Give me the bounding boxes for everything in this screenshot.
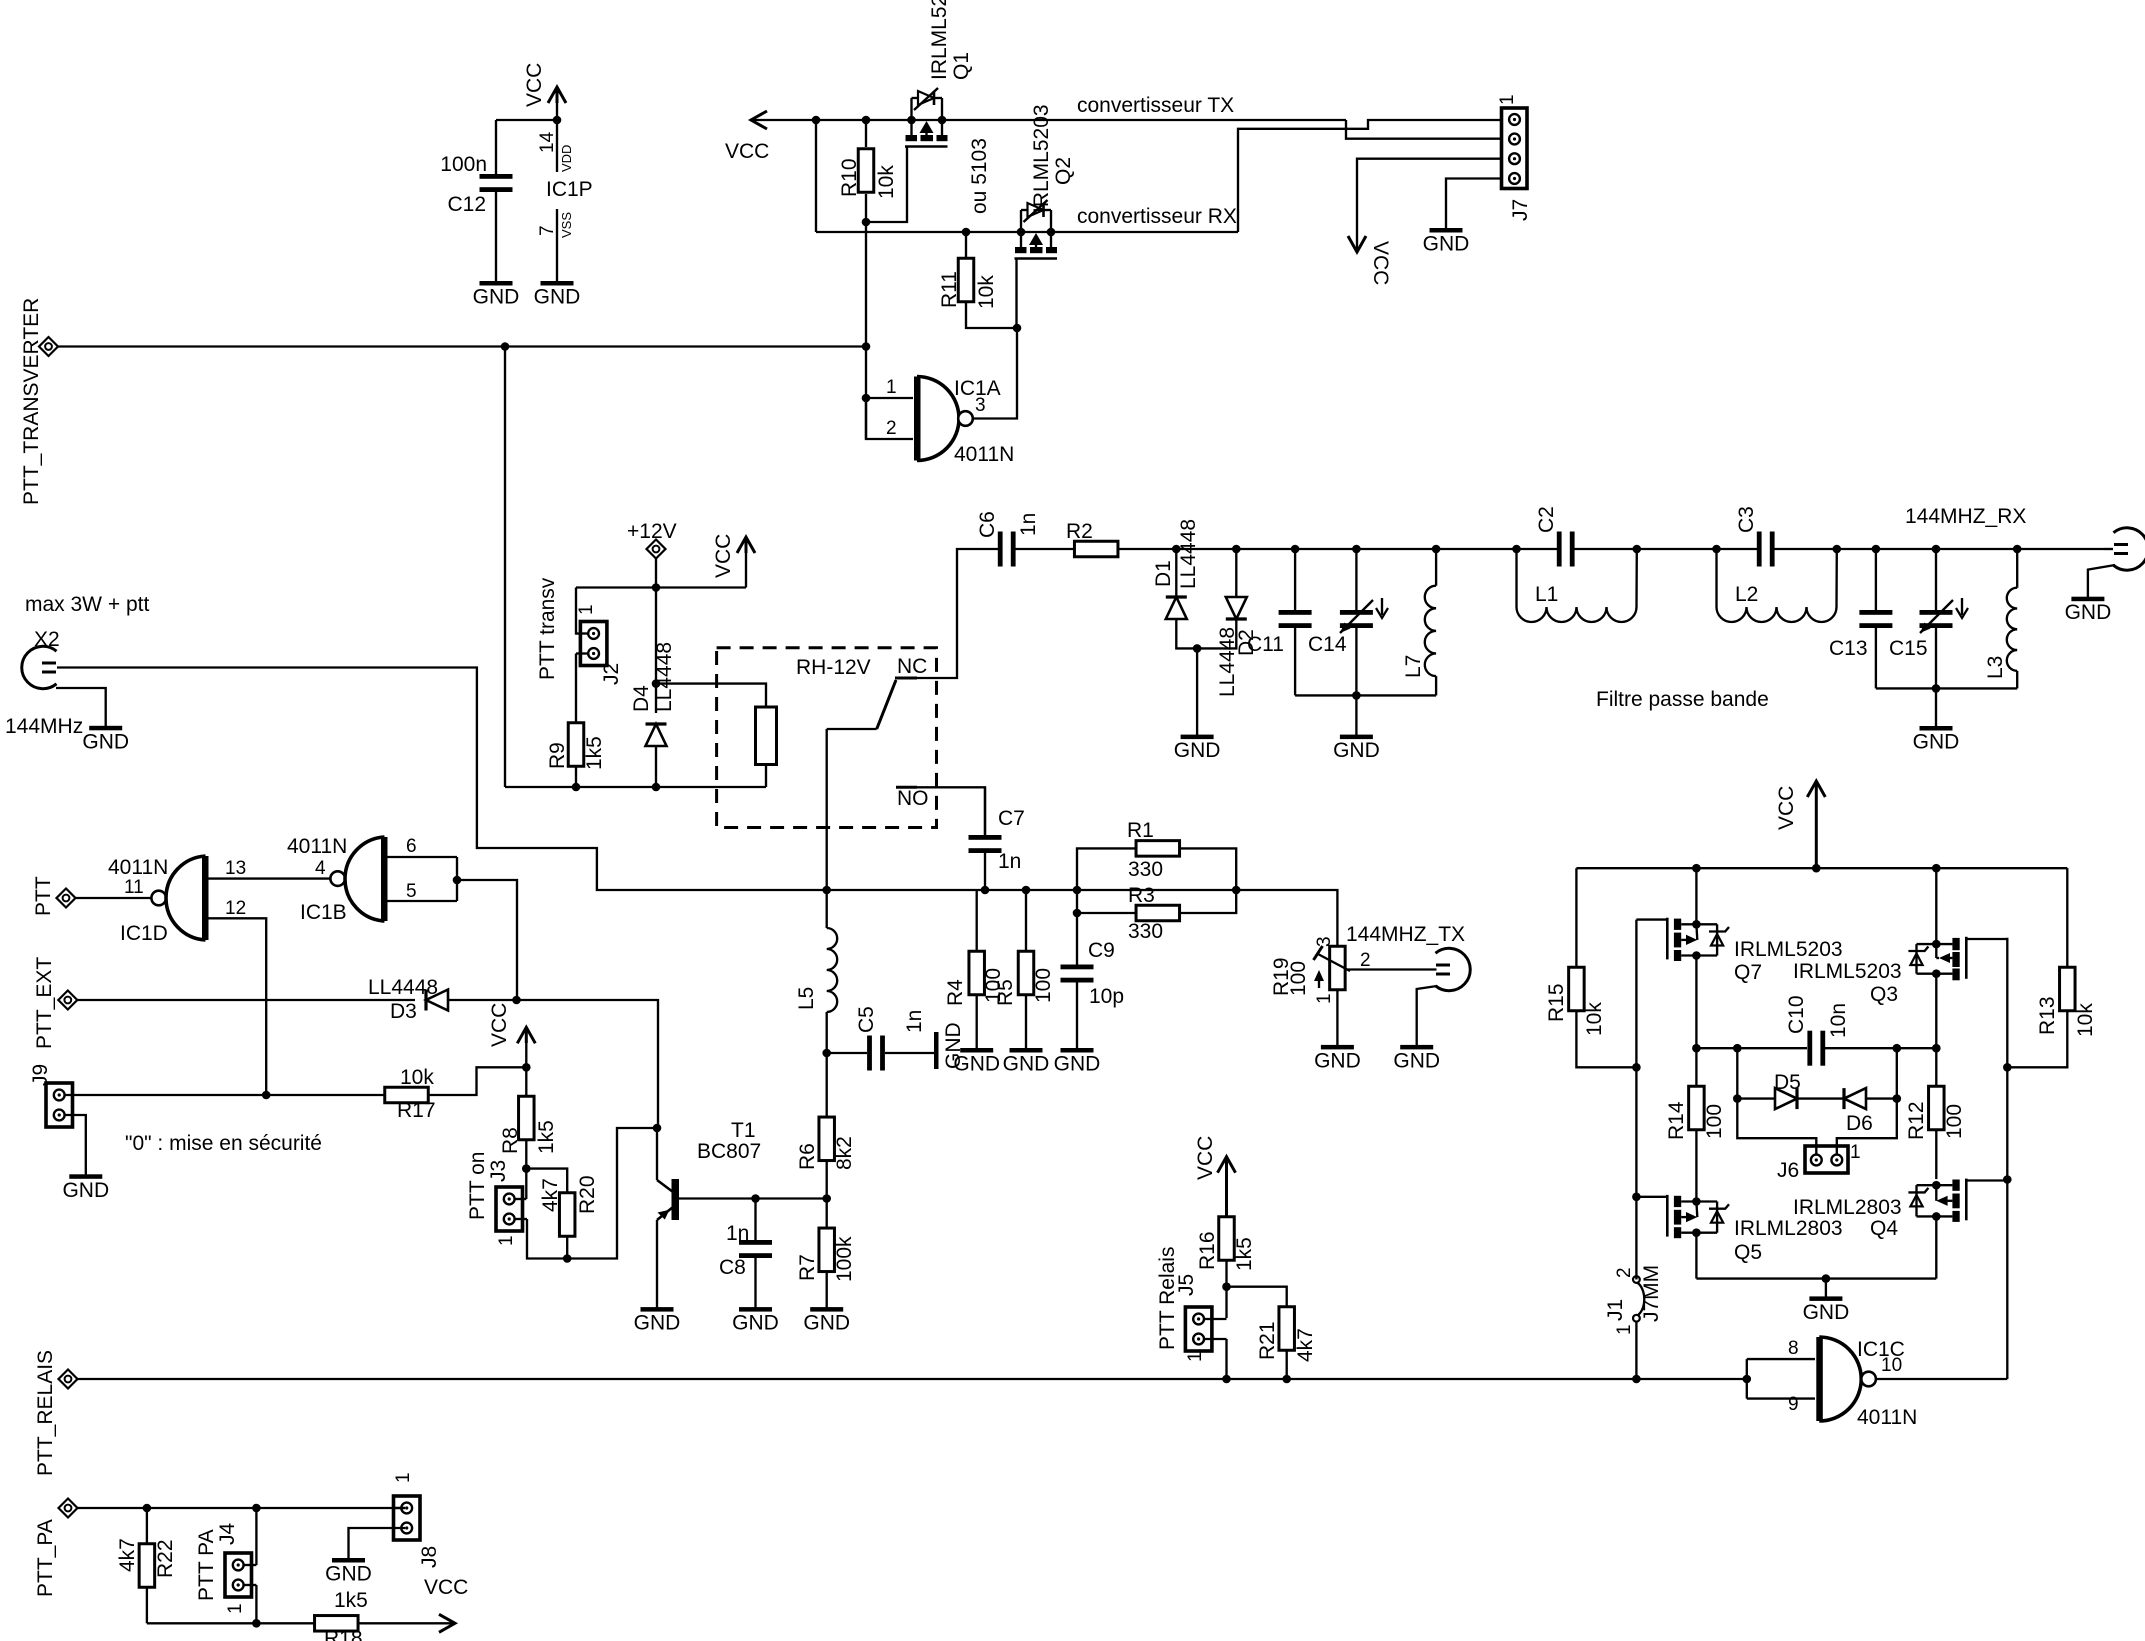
svg-text:PTT on: PTT on [466, 1152, 489, 1220]
svg-text:13: 13 [225, 858, 246, 879]
svg-text:C12: C12 [447, 193, 486, 216]
svg-text:C6: C6 [976, 511, 999, 538]
svg-text:VCC: VCC [424, 1576, 468, 1599]
svg-text:J2: J2 [600, 663, 623, 685]
svg-text:IRLML2803: IRLML2803 [1734, 1217, 1843, 1240]
svg-text:R10: R10 [838, 158, 861, 197]
svg-text:4k7: 4k7 [539, 1178, 562, 1212]
svg-text:4011N: 4011N [108, 856, 168, 879]
svg-text:330: 330 [1128, 858, 1163, 881]
svg-text:Q3: Q3 [1870, 983, 1898, 1006]
svg-text:IRLML5203: IRLML5203 [928, 0, 951, 80]
svg-text:L2: L2 [1735, 583, 1758, 606]
svg-text:J8: J8 [418, 1546, 441, 1568]
svg-text:C13: C13 [1829, 637, 1868, 660]
svg-text:10n: 10n [1827, 1003, 1850, 1038]
svg-text:J1: J1 [1604, 1299, 1627, 1321]
svg-text:10k: 10k [975, 275, 998, 309]
svg-text:9: 9 [1788, 1394, 1799, 1415]
svg-text:C2: C2 [1535, 506, 1558, 533]
svg-text:C15: C15 [1889, 637, 1928, 660]
svg-text:max 3W + ptt: max 3W + ptt [25, 593, 149, 616]
svg-text:R16: R16 [1196, 1231, 1219, 1270]
svg-text:330: 330 [1128, 920, 1163, 943]
svg-text:1k5: 1k5 [334, 1589, 368, 1612]
svg-text:Filtre passe bande: Filtre passe bande [1596, 688, 1769, 711]
svg-text:Q1: Q1 [950, 52, 973, 80]
svg-text:4: 4 [315, 858, 326, 879]
svg-text:C8: C8 [719, 1256, 746, 1279]
svg-text:4011N: 4011N [954, 443, 1014, 466]
svg-text:VCC: VCC [523, 63, 546, 107]
svg-text:R13: R13 [2036, 996, 2059, 1035]
svg-text:100: 100 [1703, 1104, 1726, 1139]
svg-text:IRLML5203: IRLML5203 [1793, 960, 1902, 983]
svg-text:C10: C10 [1785, 995, 1808, 1034]
svg-text:VCC: VCC [712, 534, 735, 578]
svg-text:1: 1 [1850, 1142, 1861, 1163]
svg-text:R21: R21 [1256, 1321, 1279, 1360]
svg-text:L7: L7 [1402, 655, 1425, 678]
svg-text:Q7: Q7 [1734, 961, 1762, 984]
svg-text:1: 1 [886, 377, 897, 398]
svg-text:R9: R9 [546, 742, 569, 769]
svg-text:10k: 10k [2074, 1003, 2097, 1037]
svg-text:J4: J4 [216, 1523, 239, 1546]
svg-text:VSS: VSS [559, 212, 574, 238]
svg-text:R17: R17 [397, 1099, 436, 1122]
svg-text:PTT_TRANSVERTER: PTT_TRANSVERTER [20, 298, 43, 505]
svg-text:PTT_RELAIS: PTT_RELAIS [34, 1350, 57, 1476]
svg-text:R12: R12 [1905, 1101, 1928, 1140]
svg-text:1: 1 [1314, 993, 1335, 1004]
svg-text:VCC: VCC [1369, 241, 1392, 285]
svg-text:144MHZ_RX: 144MHZ_RX [1905, 505, 2026, 528]
svg-text:1: 1 [496, 1235, 517, 1246]
svg-text:R5: R5 [994, 979, 1017, 1006]
svg-text:PTT PA: PTT PA [195, 1529, 218, 1601]
svg-text:PTT_PA: PTT_PA [34, 1519, 57, 1597]
svg-text:D4: D4 [630, 685, 653, 712]
svg-text:144MHZ_TX: 144MHZ_TX [1346, 923, 1465, 946]
svg-text:IC1D: IC1D [120, 922, 168, 945]
svg-text:C11: C11 [1247, 633, 1284, 656]
svg-text:IC1B: IC1B [300, 901, 347, 924]
svg-text:PTT Relais: PTT Relais [1156, 1247, 1179, 1350]
svg-text:PTT: PTT [32, 876, 55, 916]
svg-text:4011N: 4011N [1857, 1406, 1917, 1429]
svg-text:4011N: 4011N [287, 835, 347, 858]
svg-text:D5: D5 [1774, 1071, 1801, 1094]
svg-text:1: 1 [1185, 1351, 1206, 1362]
svg-text:IC1A: IC1A [954, 377, 1001, 400]
svg-text:J3: J3 [487, 1160, 510, 1182]
svg-text:C9: C9 [1088, 939, 1115, 962]
svg-text:J5: J5 [1175, 1274, 1198, 1296]
svg-text:100n: 100n [440, 153, 487, 176]
svg-text:RH-12V: RH-12V [796, 656, 871, 679]
svg-text:"0" : mise en sécurité: "0" : mise en sécurité [125, 1132, 322, 1155]
svg-text:LL4448: LL4448 [368, 976, 438, 999]
svg-text:C5: C5 [855, 1006, 878, 1033]
svg-text:R4: R4 [944, 979, 967, 1006]
svg-text:VCC: VCC [1775, 786, 1798, 830]
svg-text:100: 100 [1943, 1104, 1966, 1139]
svg-text:8: 8 [1788, 1338, 1799, 1359]
svg-text:D6: D6 [1846, 1112, 1873, 1135]
svg-text:D1: D1 [1152, 560, 1175, 587]
svg-text:1: 1 [576, 604, 597, 615]
svg-text:R22: R22 [154, 1539, 177, 1578]
svg-text:PTT transv: PTT transv [536, 577, 559, 680]
svg-text:10p: 10p [1089, 985, 1124, 1008]
svg-text:VDD: VDD [559, 145, 574, 172]
svg-text:R3: R3 [1128, 884, 1155, 907]
svg-text:10k: 10k [400, 1066, 434, 1089]
svg-text:convertisseur TX: convertisseur TX [1077, 94, 1234, 117]
svg-text:1: 1 [393, 1472, 414, 1483]
svg-text:R18: R18 [324, 1627, 363, 1641]
svg-text:2: 2 [1614, 1267, 1635, 1278]
svg-text:T1: T1 [731, 1119, 756, 1142]
svg-text:4k7: 4k7 [116, 1538, 139, 1572]
svg-text:J6: J6 [1777, 1159, 1799, 1182]
svg-text:R1: R1 [1127, 819, 1154, 842]
svg-text:1n: 1n [1017, 513, 1040, 536]
svg-text:4k7: 4k7 [1294, 1328, 1317, 1362]
svg-text:BC807: BC807 [697, 1140, 761, 1163]
svg-text:3: 3 [1314, 936, 1335, 947]
svg-text:R8: R8 [499, 1127, 522, 1154]
svg-text:VCC: VCC [1194, 1136, 1217, 1180]
svg-text:1n: 1n [903, 1010, 926, 1033]
svg-text:R20: R20 [576, 1175, 599, 1214]
svg-text:Q4: Q4 [1870, 1217, 1898, 1240]
svg-text:NO: NO [897, 787, 929, 810]
svg-text:11: 11 [124, 877, 144, 898]
svg-text:C14: C14 [1308, 633, 1347, 656]
svg-text:C7: C7 [998, 807, 1025, 830]
svg-text:R15: R15 [1545, 983, 1568, 1022]
svg-text:1: 1 [1614, 1324, 1635, 1335]
svg-text:+12V: +12V [627, 520, 677, 543]
svg-text:IRLML2803: IRLML2803 [1793, 1196, 1902, 1219]
svg-text:R14: R14 [1665, 1101, 1688, 1140]
svg-text:L5: L5 [795, 987, 818, 1010]
svg-text:R6: R6 [796, 1143, 819, 1170]
svg-text:VCC: VCC [488, 1003, 511, 1047]
svg-text:R7: R7 [796, 1254, 819, 1281]
svg-text:12: 12 [225, 898, 246, 919]
svg-text:R2: R2 [1066, 520, 1093, 543]
svg-text:1n: 1n [998, 850, 1021, 873]
svg-text:IC1C: IC1C [1857, 1338, 1905, 1361]
svg-text:convertisseur RX: convertisseur RX [1077, 205, 1237, 228]
svg-text:2: 2 [886, 418, 897, 439]
svg-text:1k5: 1k5 [535, 1120, 558, 1154]
svg-text:IRLML5203: IRLML5203 [1734, 938, 1843, 961]
svg-text:L1: L1 [1535, 583, 1558, 606]
svg-text:LL4448: LL4448 [1177, 519, 1200, 589]
svg-text:10k: 10k [875, 165, 898, 199]
svg-text:100: 100 [1287, 961, 1310, 996]
svg-text:VCC: VCC [725, 140, 769, 163]
svg-text:2: 2 [1360, 950, 1371, 971]
svg-text:J7: J7 [1509, 199, 1532, 221]
svg-text:J7MM: J7MM [1640, 1265, 1663, 1322]
svg-text:1: 1 [225, 1603, 246, 1614]
svg-text:PTT_EXT: PTT_EXT [33, 957, 56, 1049]
svg-text:1k5: 1k5 [583, 736, 606, 770]
svg-text:144MHz: 144MHz [5, 715, 83, 738]
svg-text:ou 5103: ou 5103 [968, 138, 991, 214]
svg-text:L3: L3 [1984, 656, 2007, 679]
svg-text:10k: 10k [1583, 1002, 1606, 1036]
svg-text:IRLML5203: IRLML5203 [1030, 104, 1053, 213]
svg-text:100: 100 [1032, 968, 1055, 1003]
svg-text:5: 5 [406, 881, 417, 902]
svg-text:8k2: 8k2 [833, 1136, 856, 1170]
svg-text:14: 14 [537, 131, 558, 153]
svg-text:1n: 1n [726, 1222, 749, 1245]
svg-text:NC: NC [897, 655, 927, 678]
svg-text:D3: D3 [390, 1000, 417, 1023]
svg-text:Q5: Q5 [1734, 1241, 1762, 1264]
svg-text:100k: 100k [833, 1236, 856, 1282]
svg-text:Q2: Q2 [1052, 157, 1075, 185]
svg-text:1: 1 [1497, 94, 1518, 105]
svg-text:LL4448: LL4448 [653, 642, 676, 712]
svg-text:6: 6 [406, 836, 417, 857]
svg-text:7: 7 [537, 225, 558, 236]
svg-text:IC1P: IC1P [546, 178, 593, 201]
svg-text:1k5: 1k5 [1233, 1237, 1256, 1271]
svg-text:C3: C3 [1735, 506, 1758, 533]
svg-text:R11: R11 [938, 271, 961, 308]
